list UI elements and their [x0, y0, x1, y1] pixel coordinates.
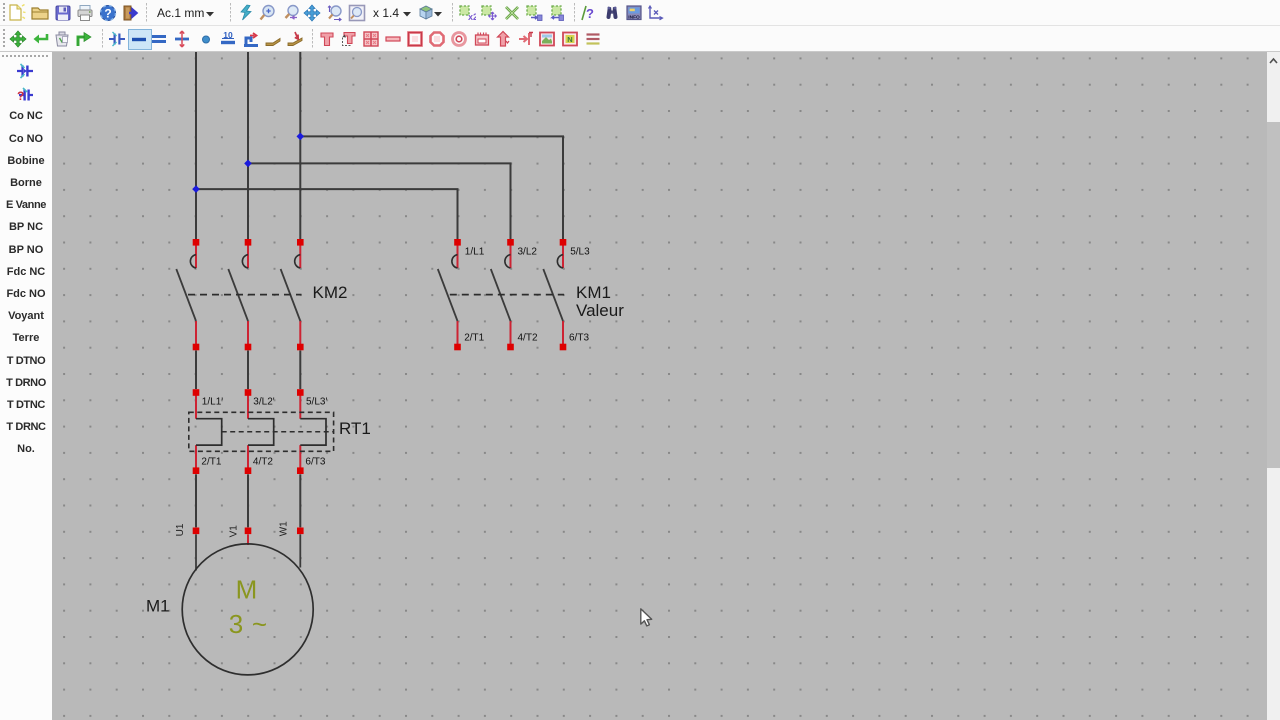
svg-text:4/T2: 4/T2 — [518, 333, 538, 344]
junction node L1 — [192, 185, 200, 193]
wire KM2 pole3 to RT1 — [299, 351, 301, 390]
wire feed L2 to KM1 pole2 — [248, 163, 511, 239]
svg-text:6/T3: 6/T3 — [305, 456, 325, 467]
contactor KM2 pole 3 — [281, 239, 304, 350]
svg-text:U1: U1 — [175, 523, 186, 536]
svg-text:5/L3: 5/L3 — [570, 247, 590, 258]
contactor KM2 pole 2 — [228, 239, 251, 350]
KM1 pin labels top — [464, 247, 590, 344]
svg-text:RT1: RT1 — [339, 419, 371, 438]
wire RT1 pole3 to motor — [299, 474, 301, 527]
svg-text:N: N — [567, 35, 572, 44]
svg-text:5/L3': 5/L3' — [306, 396, 327, 407]
RT1 internal dashed link — [222, 431, 333, 433]
wire KM2 pole2 to RT1 — [247, 351, 249, 390]
wire KM2 pole1 to RT1 — [195, 351, 197, 390]
thermal relay RT1 pole 1 — [193, 389, 222, 474]
svg-text:2/T1: 2/T1 — [201, 456, 221, 467]
svg-text:M1: M1 — [146, 597, 170, 616]
wire phase L3 vertical — [299, 52, 301, 239]
wire feed L1 to KM1 pole1 — [196, 189, 458, 239]
wire motor pin V1 (red stub) — [247, 534, 249, 545]
wire phase L2 vertical — [247, 52, 249, 239]
wire RT1 pole1 to motor — [195, 474, 197, 527]
wire motor pin W1 — [299, 534, 301, 567]
svg-text:4/T2: 4/T2 — [253, 456, 273, 467]
wire phase L1 vertical — [195, 52, 197, 239]
svg-text:3/L2: 3/L2 — [518, 247, 538, 258]
svg-text:?: ? — [104, 6, 111, 20]
svg-text:6/T3: 6/T3 — [569, 333, 589, 344]
svg-text:1/L1': 1/L1' — [202, 396, 223, 407]
junction node L2 — [244, 160, 252, 168]
motor terminal U1 — [193, 528, 200, 535]
thermal relay RT1 pole 3 — [297, 389, 326, 474]
svg-text:3/L2': 3/L2' — [253, 396, 274, 407]
svg-text:x2: x2 — [468, 12, 476, 22]
contactor KM2 pole 1 — [176, 239, 199, 350]
vertical scrollbar — [1267, 52, 1280, 720]
KM2 mechanical link dashed — [188, 294, 302, 296]
wire motor pin U1 — [195, 534, 197, 570]
RT1 pin labels top — [201, 396, 327, 467]
contactor KM1 pole 1 — [438, 239, 461, 350]
contactor KM1 pole 2 — [491, 239, 514, 350]
motor M1 circle — [182, 544, 313, 675]
svg-text:~: ~ — [252, 609, 267, 639]
wire RT1 pole2 to motor — [247, 474, 249, 527]
svg-text:W1: W1 — [278, 521, 289, 536]
svg-text:KM2: KM2 — [313, 283, 348, 302]
junction node L3 — [296, 133, 304, 141]
RT1 boundary dashed box — [189, 412, 334, 451]
thermal relay RT1 pole 2 — [245, 389, 274, 474]
svg-text:?: ? — [17, 89, 24, 103]
svg-text:INFO: INFO — [628, 15, 640, 21]
svg-text:3: 3 — [229, 609, 243, 639]
KM1 mechanical link dashed — [450, 294, 564, 296]
svg-text:Valeur: Valeur — [576, 301, 624, 320]
mouse cursor — [641, 609, 652, 626]
motor terminal V1 — [245, 528, 252, 535]
svg-text:KM1: KM1 — [576, 283, 611, 302]
motor terminal W1 — [297, 528, 304, 535]
svg-text:M: M — [236, 575, 258, 605]
svg-text:?: ? — [586, 6, 594, 21]
contactor KM1 pole 3 — [543, 239, 566, 350]
svg-text:2/T1: 2/T1 — [464, 333, 484, 344]
wire feed L3 to KM1 pole3 — [300, 136, 563, 239]
svg-text:1/L1: 1/L1 — [465, 247, 485, 258]
svg-text:V1: V1 — [228, 525, 239, 538]
